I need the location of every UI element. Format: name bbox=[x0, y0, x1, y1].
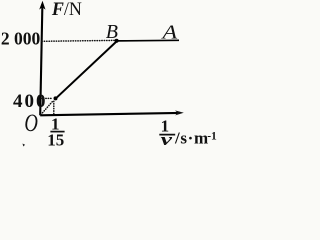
dotted diagonal O to P bbox=[41, 100, 54, 114]
line segment B to A bbox=[117, 39, 180, 42]
dotted vertical at 1/15 bbox=[53, 101, 55, 114]
svg-text:15: 15 bbox=[47, 130, 64, 149]
svg-text:v: v bbox=[161, 130, 173, 149]
svg-text:-1: -1 bbox=[207, 130, 217, 142]
label A bbox=[160, 20, 177, 43]
y-axis arrowhead bbox=[39, 1, 45, 10]
svg-text:B: B bbox=[106, 21, 118, 43]
svg-text:O: O bbox=[24, 109, 38, 137]
y-axis bbox=[40, 4, 42, 115]
x-axis bbox=[40, 113, 180, 115]
fraction 1/15 bar bbox=[50, 131, 64, 133]
x-axis unit: v denominator bbox=[161, 130, 173, 149]
x-axis unit: fraction bar bbox=[159, 134, 175, 136]
point B dot bbox=[115, 39, 119, 43]
svg-text:/s·m: /s·m bbox=[174, 128, 209, 147]
x-axis arrowhead bbox=[175, 110, 184, 115]
stray speck bbox=[23, 144, 26, 147]
point P dot bbox=[54, 96, 58, 100]
dotted line at F=400 bbox=[41, 97, 53, 99]
dotted line at F=2000 bbox=[42, 39, 114, 42]
svg-text:F/N: F/N bbox=[51, 0, 82, 20]
svg-text:A: A bbox=[160, 20, 177, 43]
svg-text:2 000: 2 000 bbox=[1, 29, 41, 49]
label O (origin) bbox=[24, 109, 38, 137]
line segment P to B bbox=[56, 41, 117, 98]
